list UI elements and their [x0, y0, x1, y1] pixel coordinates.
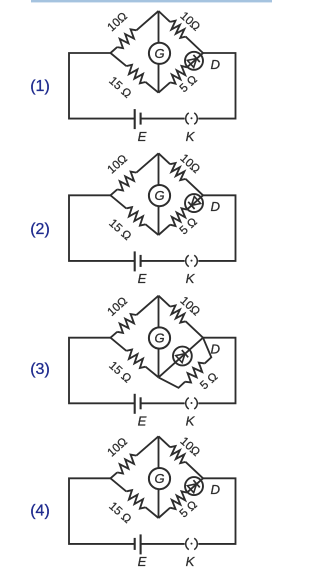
- svg-text:D: D: [211, 482, 221, 497]
- svg-text:(4): (4): [30, 503, 50, 520]
- key K: [186, 255, 189, 266]
- svg-text:5 Ω: 5 Ω: [177, 214, 200, 237]
- svg-text:G: G: [154, 471, 164, 486]
- wire: left vertex to left wall, down, bottom rail to battery: [69, 195, 135, 261]
- wire: key to right wall, up, to right vertex: [198, 53, 235, 119]
- key K: [186, 113, 189, 124]
- svg-text:G: G: [154, 46, 164, 61]
- wire: battery to key: [141, 402, 185, 404]
- resistor 5ohm lower-right arm: [159, 82, 171, 92]
- diode D branch (bottom vertex to right vertex): [159, 338, 204, 378]
- svg-text:E: E: [138, 414, 147, 429]
- galvanometer G: [149, 185, 170, 206]
- resistor 10ohm upper-right arm: [159, 153, 171, 164]
- svg-text:E: E: [138, 129, 147, 144]
- battery E: [134, 251, 136, 271]
- battery E: [134, 538, 136, 550]
- svg-text:K: K: [186, 271, 196, 286]
- resistor 10ohm upper-left arm: [111, 47, 118, 53]
- resistor 5ohm parallel branch: [159, 377, 186, 387]
- svg-text:5 Ω: 5 Ω: [197, 369, 220, 392]
- svg-text:10Ω: 10Ω: [104, 294, 130, 319]
- key K: [186, 538, 189, 549]
- resistor 10ohm upper-left arm: [111, 189, 118, 195]
- wire: left vertex to left wall, down, bottom rail to battery: [69, 478, 135, 544]
- resistor 5ohm lower-right arm: [159, 508, 171, 518]
- svg-text:G: G: [154, 188, 164, 203]
- resistor 10ohm upper-right arm: [159, 11, 171, 22]
- battery E: [134, 394, 136, 414]
- svg-text:(3): (3): [30, 361, 50, 378]
- svg-text:E: E: [138, 554, 147, 569]
- svg-text:D: D: [211, 342, 221, 357]
- wire: galvanometer branch top to bottom vertex: [158, 296, 160, 378]
- wire: battery to key: [141, 118, 185, 120]
- resistor 10ohm upper-left arm: [111, 332, 118, 338]
- svg-text:D: D: [211, 57, 221, 72]
- svg-text:K: K: [186, 129, 196, 144]
- diode D in lower-right arm: [185, 194, 203, 212]
- wire: galvanometer branch top to bottom vertex: [158, 153, 160, 235]
- wire: key to right wall, up, to right vertex: [198, 338, 235, 404]
- resistor 10ohm upper-right arm: [159, 436, 171, 447]
- svg-text:G: G: [154, 331, 164, 346]
- svg-text:15 Ω: 15 Ω: [106, 73, 134, 100]
- key K: [186, 398, 189, 409]
- diode D in lower-right arm: [185, 52, 203, 70]
- diode D in lower-right arm: [185, 477, 203, 495]
- top blue rule: [31, 0, 272, 2]
- resistor 15ohm lower-left arm: [111, 53, 127, 66]
- wire: key to right wall, up, to right vertex: [198, 195, 235, 261]
- svg-text:(2): (2): [30, 221, 50, 238]
- wire: galvanometer branch top to bottom vertex: [158, 11, 160, 93]
- svg-text:(1): (1): [30, 78, 50, 95]
- wire: left vertex to left wall, down, bottom rail to battery: [69, 53, 135, 119]
- svg-text:5 Ω: 5 Ω: [177, 497, 200, 520]
- resistor 10ohm upper-right arm: [159, 296, 171, 307]
- battery E: [134, 109, 136, 129]
- svg-text:10Ω: 10Ω: [104, 151, 130, 176]
- svg-text:E: E: [138, 271, 147, 286]
- wire: battery to key: [141, 543, 185, 545]
- svg-text:10Ω: 10Ω: [104, 434, 130, 459]
- wire: battery to key: [141, 260, 185, 262]
- resistor 15ohm lower-left arm: [111, 195, 127, 208]
- resistor 15ohm lower-left arm: [111, 338, 127, 351]
- wire: key to right wall, up, to right vertex: [198, 478, 235, 544]
- svg-text:K: K: [186, 554, 196, 569]
- galvanometer G: [149, 43, 170, 64]
- svg-text:15 Ω: 15 Ω: [106, 358, 134, 385]
- svg-text:15 Ω: 15 Ω: [106, 216, 134, 243]
- wire: galvanometer branch top to bottom vertex: [158, 436, 160, 518]
- svg-text:D: D: [211, 199, 221, 214]
- svg-text:K: K: [186, 414, 196, 429]
- svg-text:5 Ω: 5 Ω: [177, 72, 200, 95]
- svg-text:10Ω: 10Ω: [104, 9, 130, 34]
- resistor 15ohm lower-left arm: [111, 478, 127, 491]
- resistor 5ohm lower-right arm: [159, 225, 171, 235]
- galvanometer G: [149, 468, 170, 489]
- galvanometer G: [149, 327, 170, 348]
- resistor 10ohm upper-left arm: [111, 472, 118, 478]
- svg-text:15 Ω: 15 Ω: [106, 499, 134, 526]
- wire: left vertex to left wall, down, bottom rail to battery: [69, 338, 135, 404]
